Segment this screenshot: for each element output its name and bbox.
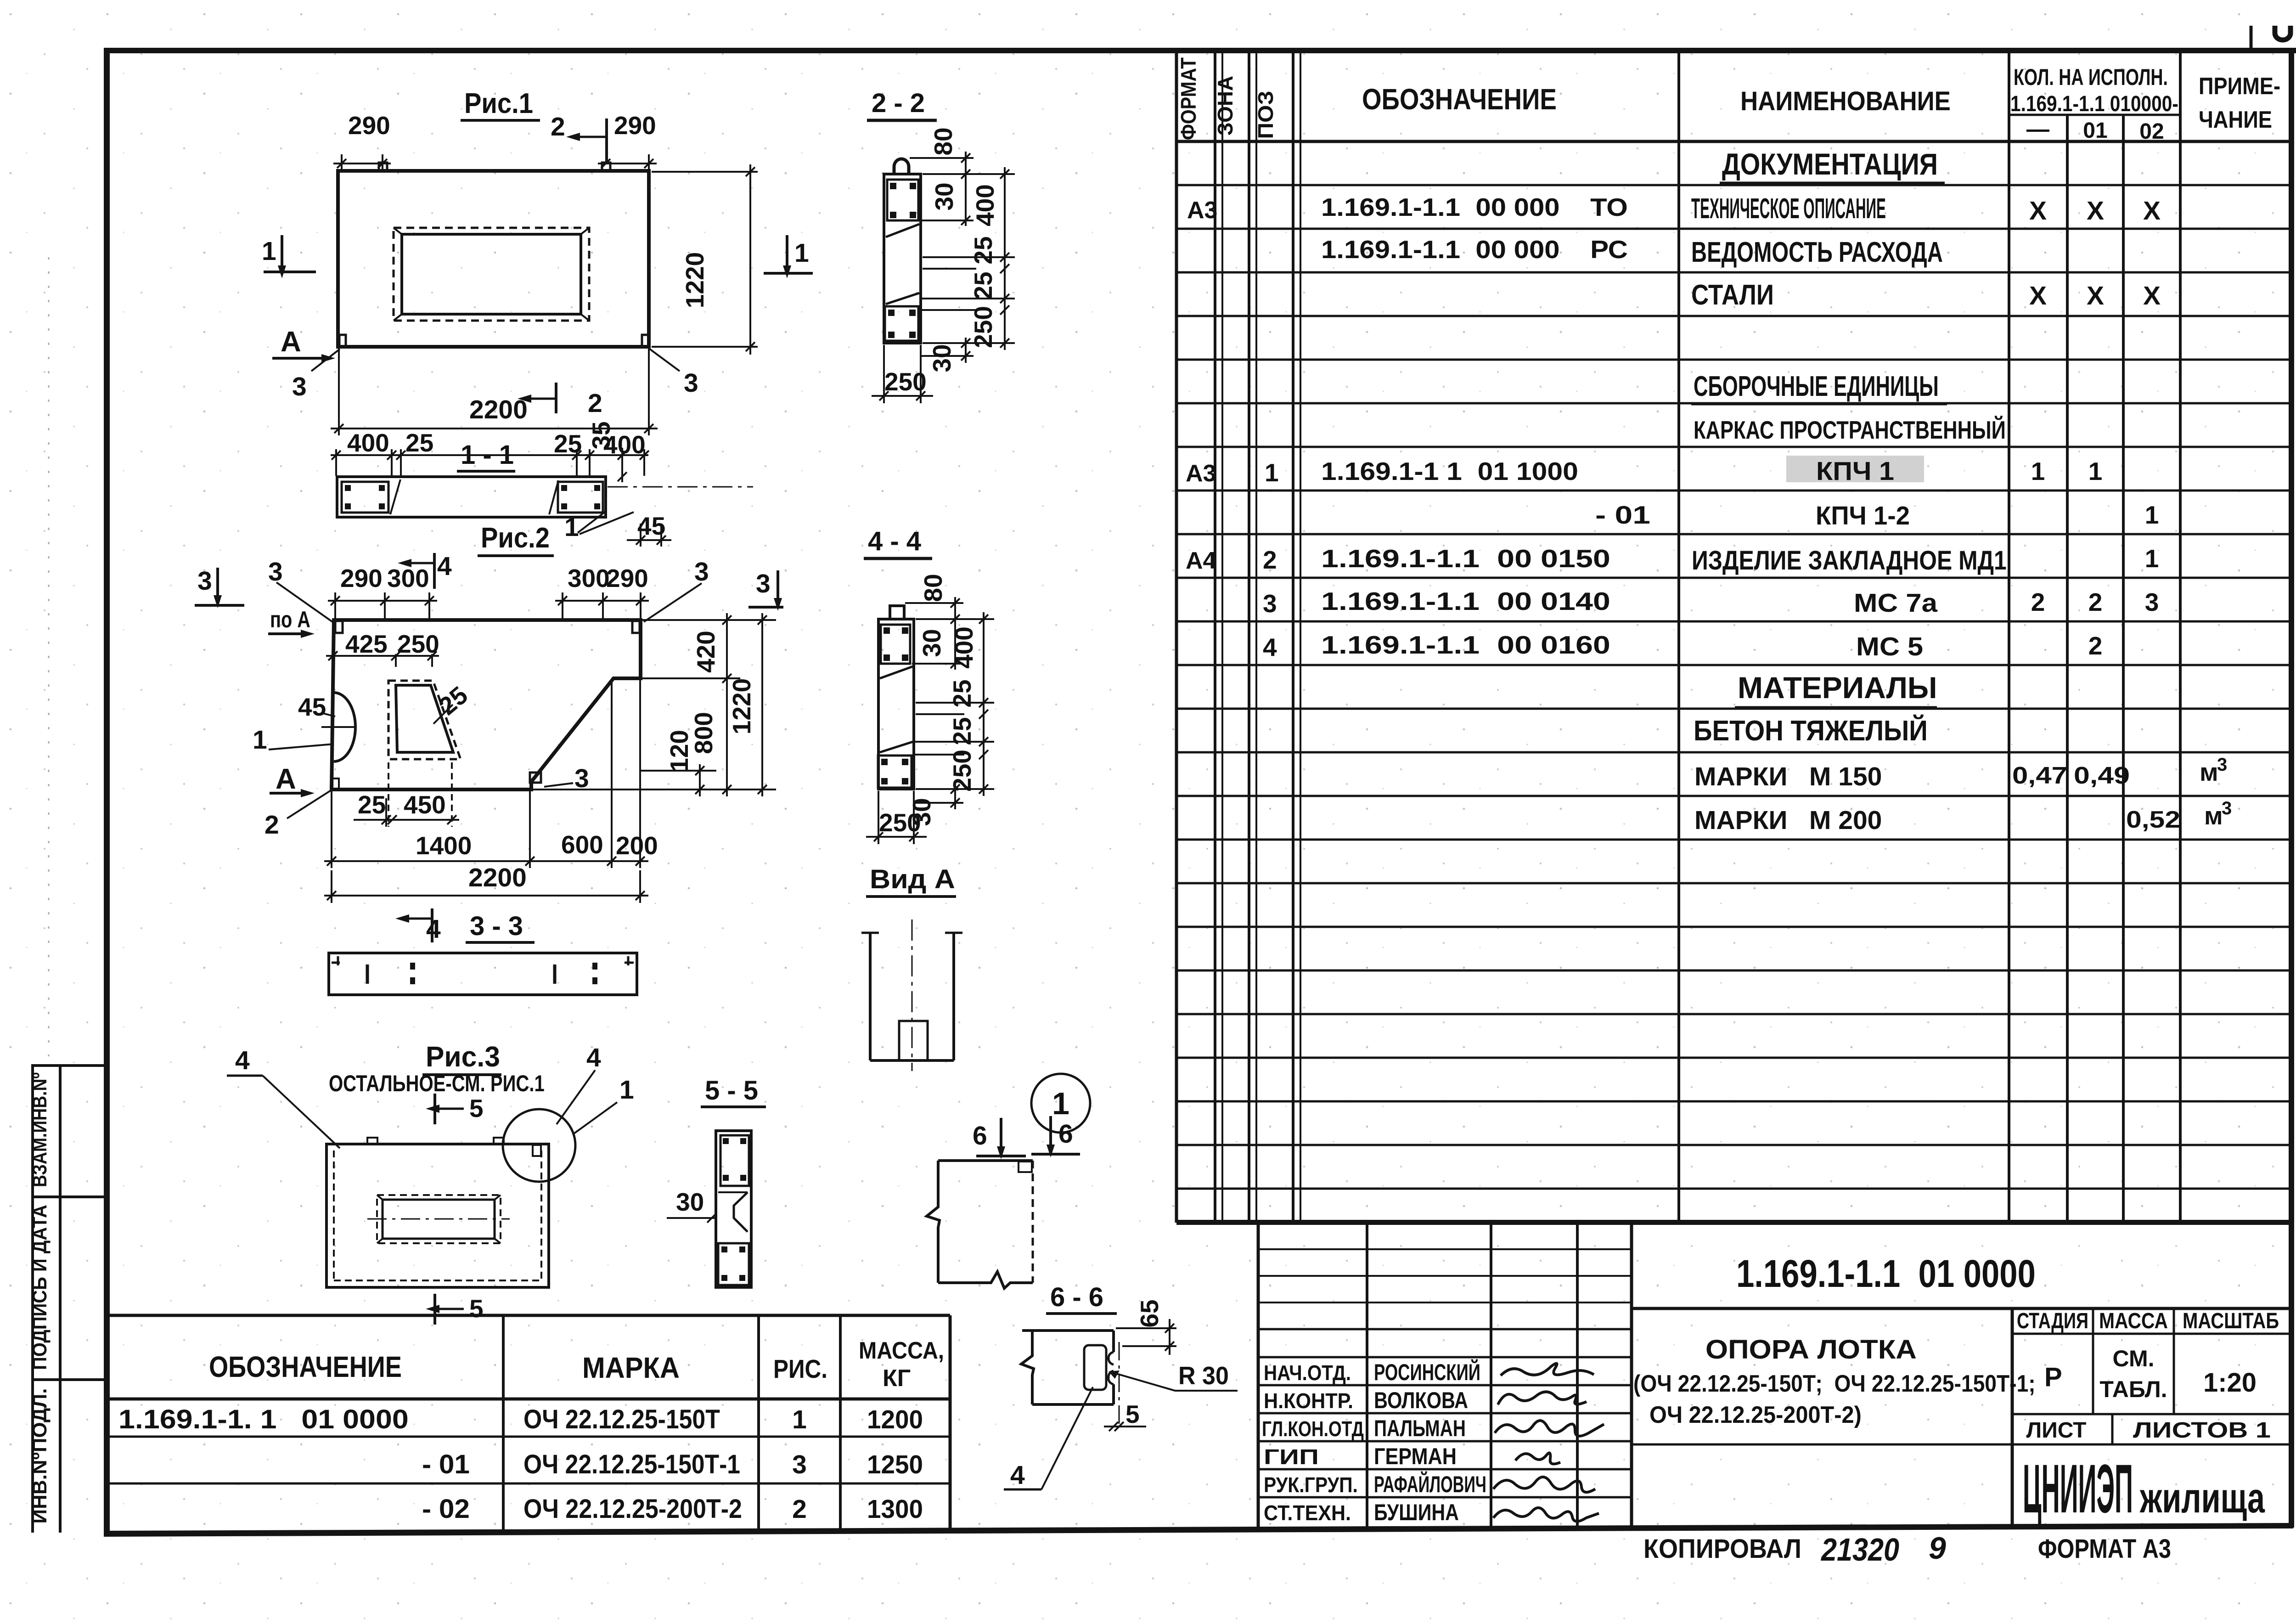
title block thin row line 1 [1258, 1248, 1632, 1250]
fig3 dashed inset left [333, 1150, 335, 1280]
svg-text:м: м [2200, 758, 2218, 786]
fig1 lifting loop stub right [602, 163, 610, 171]
svg-text:РУК.ГРУП.: РУК.ГРУП. [1264, 1474, 1358, 1497]
svg-text:800: 800 [689, 712, 718, 754]
spec table col line naimenovanie/qty [2008, 50, 2010, 1223]
fig2 slab outline polygon [332, 620, 641, 789]
svg-text:ОЧ 22.12.25-200Т-2): ОЧ 22.12.25-200Т-2) [1649, 1401, 1862, 1428]
svg-text:1300: 1300 [867, 1494, 923, 1523]
fig3 top stub right [494, 1138, 504, 1144]
svg-text:3 - 3: 3 - 3 [470, 911, 523, 941]
title block signature row lines [1258, 1357, 1632, 1497]
frame left border [104, 48, 110, 1535]
section 1-1 left rebar dots [345, 485, 385, 509]
svg-text:3: 3 [684, 368, 698, 398]
margin strip outer vertical line [31, 1064, 34, 1533]
svg-text:ФОРМАТ А3: ФОРМАТ А3 [2038, 1534, 2171, 1564]
section 6-6 R30 fillet bumps [1109, 1352, 1114, 1365]
margin strip inner vertical line [59, 1064, 62, 1533]
svg-text:НАИМЕНОВАНИЕ: НАИМЕНОВАНИЕ [1740, 86, 1951, 116]
section 4-4 bottom rebar dots [881, 759, 908, 784]
margin strip divider 2 [31, 1378, 107, 1381]
svg-text:1.169.1-1.1 010000-: 1.169.1-1.1 010000- [2010, 92, 2178, 116]
svg-text:ТЕХНИЧЕСКОЕ ОПИСАНИЕ: ТЕХНИЧЕСКОЕ ОПИСАНИЕ [1691, 193, 1886, 225]
title block col line stadiya/massa [2092, 1308, 2094, 1414]
svg-text:ВЗАМ.ИНВ.Nº: ВЗАМ.ИНВ.Nº [28, 1072, 51, 1187]
svg-text:600: 600 [561, 830, 603, 859]
section 5-5 bottom rebar box [718, 1243, 749, 1285]
svg-text:35: 35 [587, 421, 615, 449]
svg-text:4: 4 [1263, 633, 1277, 661]
svg-text:2: 2 [551, 112, 565, 141]
section 2-2 bottom rebar box [885, 306, 918, 341]
svg-text:6: 6 [1058, 1119, 1073, 1149]
frame top border [104, 48, 2296, 53]
svg-text:РАФАЙЛОВИЧ: РАФАЙЛОВИЧ [1374, 1471, 1486, 1497]
svg-text:R 30: R 30 [1178, 1362, 1229, 1390]
svg-text:ОЧ 22.12.25-150Т: ОЧ 22.12.25-150Т [523, 1404, 720, 1434]
svg-text:25: 25 [948, 679, 976, 707]
section 2-2 dim 80 [961, 152, 970, 226]
svg-text:ОЧ 22.12.25-200Т-2: ОЧ 22.12.25-200Т-2 [523, 1494, 742, 1523]
svg-text:4: 4 [235, 1046, 250, 1075]
svg-text:1.169.1-1. 1 01 0000: 1.169.1-1. 1 01 0000 [118, 1404, 409, 1434]
spec table col line zona/poz [1248, 50, 1250, 1223]
spec table subcol line qty1/qty2 [2066, 115, 2069, 1223]
svg-text:300: 300 [387, 564, 429, 592]
section 4-4 slash above bottom cage [880, 742, 913, 752]
svg-text:ОЧ 22.12.25-150Т-1: ОЧ 22.12.25-150Т-1 [523, 1449, 740, 1479]
section 4-4 dim 80 [951, 597, 960, 670]
svg-text:1.169.1-1.1 00 000 ТО: 1.169.1-1.1 00 000 ТО [1321, 193, 1628, 221]
svg-text:25: 25 [554, 429, 582, 458]
fig2 corner plate top-left [335, 621, 343, 633]
svg-text:ПРИМЕ-: ПРИМЕ- [2199, 73, 2280, 100]
bottom-left table header bottom line [105, 1398, 950, 1401]
svg-text:1.169.1-1 1 01 1000: 1.169.1-1 1 01 1000 [1321, 458, 1578, 486]
svg-text:21320: 21320 [1820, 1532, 1899, 1568]
svg-text:2200: 2200 [469, 395, 528, 424]
svg-text:МС 7а: МС 7а [1854, 588, 1938, 617]
svg-text:1: 1 [619, 1075, 634, 1105]
section 3-3 inner tick 1 [366, 964, 369, 984]
svg-text:КАРКАС ПРОСТРАНСТВЕННЫЙ: КАРКАС ПРОСТРАНСТВЕННЫЙ [1694, 415, 2006, 444]
title block col line labels/names [1366, 1223, 1368, 1528]
fig2 corner plate top-right [632, 621, 640, 633]
svg-text:Х: Х [2029, 196, 2047, 226]
svg-text:ВОЛКОВА: ВОЛКОВА [1374, 1387, 1468, 1413]
fig3 opening solid outline [383, 1200, 495, 1239]
svg-text:250: 250 [397, 630, 439, 658]
svg-text:Х: Х [2087, 281, 2104, 310]
svg-text:- 01: - 01 [422, 1449, 470, 1479]
svg-text:3: 3 [2145, 588, 2159, 616]
svg-text:ФОРМАТ: ФОРМАТ [1177, 57, 1201, 140]
signature squiggle palman [1495, 1421, 1604, 1436]
fig1 dim 290 right [598, 154, 657, 170]
section 5-5 outline [716, 1131, 751, 1287]
title block big designation cell bottom line [1632, 1307, 2289, 1310]
spec table col line qty/primechanie [2179, 50, 2182, 1223]
svg-text:жилища: жилища [2139, 1475, 2265, 1522]
svg-text:290: 290 [340, 564, 383, 592]
svg-text:1.169.1-1.1 00 0150: 1.169.1-1.1 00 0150 [1321, 545, 1610, 573]
svg-text:3: 3 [2217, 755, 2227, 775]
vid A top flange ticks [861, 932, 879, 934]
svg-text:1: 1 [1265, 458, 1279, 487]
svg-text:2: 2 [2088, 632, 2103, 660]
svg-text:1220: 1220 [681, 252, 709, 308]
section 4-4 top rebar box [881, 625, 910, 664]
svg-text:2: 2 [1263, 546, 1277, 574]
section 4-4 dim 30 bottom [951, 783, 960, 809]
section 3-3 inner dots 2 [592, 963, 597, 970]
svg-text:А3: А3 [1186, 460, 1216, 487]
svg-text:1.169.1-1.1 00 0140: 1.169.1-1.1 00 0140 [1321, 587, 1610, 615]
svg-text:КГ: КГ [883, 1365, 911, 1392]
svg-text:1250: 1250 [867, 1449, 923, 1479]
svg-text:80: 80 [929, 127, 957, 155]
svg-text:5: 5 [469, 1294, 484, 1323]
svg-text:ГЕРМАН: ГЕРМАН [1374, 1444, 1457, 1469]
section 6-6 embedded plate [1084, 1345, 1106, 1390]
svg-text:МАССА: МАССА [2099, 1309, 2168, 1333]
svg-text:ТАБЛ.: ТАБЛ. [2099, 1376, 2167, 1402]
vid A bottom edge [870, 1059, 954, 1062]
title block col line list/listov [2111, 1414, 2114, 1444]
svg-text:КПЧ 1: КПЧ 1 [1816, 457, 1894, 486]
section 4-4 dim ladder 400 25 25 250 [979, 612, 988, 796]
svg-text:1:20: 1:20 [2203, 1368, 2257, 1398]
section 2-2 dim 30 top [961, 216, 970, 225]
svg-text:СБОРОЧНЫЕ ЕДИНИЦЫ: СБОРОЧНЫЕ ЕДИНИЦЫ [1694, 370, 1939, 402]
fig2 corner plate bottom-left [332, 778, 339, 789]
svg-text:Х: Х [2143, 281, 2161, 310]
section 4-4 dim 250 bottom [866, 791, 927, 844]
svg-text:1: 1 [1052, 1086, 1069, 1121]
section 5-5 top rebar dots [723, 1138, 746, 1181]
fig2 trapezoid opening solid [396, 685, 453, 752]
fig2 dim 1220 vertical [758, 613, 767, 796]
svg-text:А4: А4 [1186, 547, 1216, 574]
top-right page number mark [2250, 26, 2253, 51]
frame bottom border (slightly sloped as in scan) [104, 1523, 2293, 1537]
svg-text:А: А [276, 763, 296, 795]
svg-text:1: 1 [794, 238, 809, 268]
margin strip divider 1 [31, 1195, 107, 1198]
svg-text:1.169.1-1.1 00 0160: 1.169.1-1.1 00 0160 [1321, 631, 1610, 659]
svg-text:4: 4 [1010, 1460, 1025, 1490]
svg-text:МАТЕРИАЛЫ: МАТЕРИАЛЫ [1738, 671, 1937, 705]
svg-text:2: 2 [264, 810, 279, 840]
section 4-4 slash below top cage [880, 666, 913, 678]
svg-text:400: 400 [971, 184, 999, 226]
section 2-2 dim 30 bottom [961, 338, 970, 363]
section 2-2 extension lines [910, 158, 1015, 356]
svg-text:ИЗДЕЛИЕ ЗАКЛАДНОЕ МД1: ИЗДЕЛИЕ ЗАКЛАДНОЕ МД1 [1692, 546, 2007, 575]
svg-text:2200: 2200 [468, 863, 527, 892]
bottom-left table right edge [949, 1315, 952, 1529]
svg-text:290: 290 [614, 111, 656, 140]
section 2-2 top rebar box [887, 180, 918, 220]
faint scanner artifact dotted line [48, 257, 50, 1056]
section 4-4 bottom rebar box [878, 756, 912, 788]
svg-text:МАРКИ М 150: МАРКИ М 150 [1694, 762, 1882, 791]
margin strip top line [31, 1064, 107, 1067]
section 4-4 lifting loop stub [890, 606, 904, 619]
svg-text:200: 200 [616, 831, 658, 860]
detail 6 upper square left edge with break [927, 1161, 940, 1283]
section 6-6 dim 65 [1116, 1319, 1176, 1355]
svg-text:400: 400 [347, 429, 389, 457]
section 1-1 left rebar box [342, 482, 388, 513]
title block thin row line 2 [1258, 1275, 1632, 1277]
spec table col line oboznachenie/naimenovanie [1677, 50, 1680, 1223]
svg-text:3: 3 [574, 764, 589, 793]
section 1-1 axis dash-dot line [608, 486, 753, 488]
svg-text:1220: 1220 [727, 678, 756, 734]
svg-text:МАСШТАБ: МАСШТАБ [2183, 1309, 2279, 1333]
svg-text:3: 3 [694, 557, 709, 586]
svg-text:1.169.1-1.1 01 0000: 1.169.1-1.1 01 0000 [1736, 1252, 2036, 1295]
fig1 opening corner bevels [394, 228, 589, 321]
svg-text:4: 4 [586, 1043, 601, 1072]
svg-text:ОБОЗНАЧЕНИЕ: ОБОЗНАЧЕНИЕ [1362, 83, 1557, 116]
svg-text:1: 1 [2031, 457, 2045, 485]
section 2-2 slash above bottom cage [886, 293, 919, 304]
bottom-left table col line ris/massa [839, 1315, 842, 1529]
svg-text:- 02: - 02 [422, 1494, 470, 1524]
section 2-2 top rebar dots [890, 183, 916, 218]
signature squiggle rosinsky [1501, 1364, 1594, 1376]
svg-text:30: 30 [928, 344, 956, 372]
svg-text:1: 1 [792, 1405, 807, 1434]
svg-text:А3: А3 [1187, 197, 1217, 224]
svg-text:БУШИНА: БУШИНА [1374, 1500, 1459, 1525]
svg-text:3: 3 [268, 557, 283, 586]
spec table col line poz/oboznachenie [1292, 50, 1294, 1223]
svg-text:Рис.2: Рис.2 [481, 521, 550, 553]
title block name cell bottom line [1632, 1444, 2289, 1446]
svg-text:м: м [2204, 801, 2223, 830]
svg-text:2: 2 [2088, 588, 2103, 616]
fig3 opening dashed outline [377, 1195, 501, 1243]
bottom-left table col line marka/ris [757, 1315, 760, 1529]
section 1-1 dim 45 [627, 524, 671, 547]
section 1-1 right rebar dots [561, 485, 600, 509]
title block stage header bottom line [2012, 1333, 2289, 1335]
fig1 lifting loop stub left [379, 163, 387, 171]
section 3-3 end bracket left [332, 956, 340, 965]
fig2 dim 800 vertical [722, 678, 732, 796]
svg-text:3: 3 [2222, 798, 2232, 818]
svg-text:РОСИНСКИЙ: РОСИНСКИЙ [1374, 1359, 1480, 1385]
section 1-1 dim line 400 25 25 400 [331, 449, 649, 476]
svg-text:1: 1 [262, 237, 276, 266]
svg-text:2: 2 [2031, 588, 2045, 616]
svg-text:45: 45 [637, 512, 665, 540]
svg-text:ПОЗ: ПОЗ [1255, 91, 1278, 139]
vid A right wall [952, 933, 955, 1060]
svg-text:1200: 1200 [867, 1404, 923, 1434]
detail 6 upper corner notch [1019, 1162, 1032, 1172]
svg-text:25: 25 [969, 271, 997, 299]
spec table subcol line qty2/qty3 [2122, 115, 2125, 1223]
signature squiggle volkova [1498, 1392, 1587, 1404]
section 6-6 dim 5 [1104, 1422, 1146, 1431]
fig2 trapezoid opening dashed [388, 681, 461, 759]
section 1-1 bar outline [337, 477, 606, 517]
section 1-1 left slash mark [390, 479, 400, 514]
svg-text:ПАЛЬМАН: ПАЛЬМАН [1374, 1415, 1466, 1441]
svg-text:30: 30 [676, 1188, 704, 1216]
svg-text:5 - 5: 5 - 5 [705, 1076, 758, 1105]
svg-text:А: А [281, 326, 301, 358]
spec table left edge [1175, 50, 1178, 1223]
section 6-6 block bottom edge [1032, 1403, 1114, 1406]
fig3 slab outline [326, 1144, 549, 1287]
svg-text:400: 400 [950, 626, 978, 669]
section 1-1 right slash mark [549, 480, 558, 514]
svg-text:2: 2 [792, 1494, 807, 1524]
svg-text:ЗОНА: ЗОНА [1213, 76, 1237, 135]
signature squiggle german [1515, 1453, 1560, 1464]
detail 6 upper square bottom edge with break [938, 1272, 1033, 1288]
fig3 top stub left [367, 1138, 377, 1144]
svg-text:2 - 2: 2 - 2 [872, 88, 925, 118]
section 1-1 dim 35 [618, 448, 627, 482]
fig1 opening dashed outline [394, 228, 589, 321]
fig1 opening solid inner outline [402, 234, 581, 314]
svg-text:290: 290 [606, 564, 648, 592]
section 2-2 slash below top cage [886, 224, 919, 237]
svg-text:Рис.3: Рис.3 [426, 1040, 500, 1072]
svg-text:(ОЧ 22.12.25-150Т; ОЧ 22.12.2: (ОЧ 22.12.25-150Т; ОЧ 22.12.25-150Т-1; [1633, 1370, 2036, 1397]
svg-text:КОПИРОВАЛ: КОПИРОВАЛ [1643, 1534, 1801, 1563]
fig2 corner plate bottom-mid [530, 773, 541, 783]
vid A left wall [869, 933, 872, 1060]
section 3-3 inner dots 1 [410, 963, 415, 970]
svg-text:БЕТОН ТЯЖЕЛЫЙ: БЕТОН ТЯЖЕЛЫЙ [1694, 715, 1928, 747]
svg-text:МАРКИ М 200: МАРКИ М 200 [1694, 806, 1882, 835]
section 4-4 top rebar dots [884, 627, 908, 661]
fig2 top dims 290 300 [328, 592, 437, 619]
svg-text:СТ.ТЕХН.: СТ.ТЕХН. [1264, 1502, 1351, 1525]
svg-text:НАЧ.ОТД.: НАЧ.ОТД. [1264, 1362, 1351, 1385]
svg-text:РИС.: РИС. [773, 1355, 827, 1384]
section 4-4 dim 30 top [951, 659, 960, 668]
svg-text:ОСТАЛЬНОЕ-СМ. РИС.1: ОСТАЛЬНОЕ-СМ. РИС.1 [329, 1071, 545, 1096]
svg-text:Н.КОНТР.: Н.КОНТР. [1264, 1390, 1353, 1413]
svg-text:45: 45 [298, 693, 326, 721]
svg-text:25: 25 [405, 429, 433, 457]
fig3 section mark 5 top [433, 1094, 436, 1124]
bottom-left table col line oboznachenie/marka [502, 1315, 505, 1529]
fig3 dashed inset right [540, 1150, 542, 1280]
svg-text:0,47: 0,47 [2012, 762, 2067, 789]
vid A bottom insert rect [899, 1021, 928, 1060]
svg-text:3: 3 [292, 372, 307, 401]
section 6-6 block top edge [1022, 1329, 1114, 1332]
spec table header bottom line [1176, 140, 2291, 143]
bottom-left table top line [105, 1314, 950, 1317]
svg-text:МАССА,: МАССА, [859, 1337, 944, 1364]
fig1 corner embed plate left [339, 335, 346, 346]
svg-text:1: 1 [2145, 544, 2159, 573]
section 2-2 dim 250 bottom [872, 345, 933, 403]
fig2 dim 120 vertical [695, 764, 704, 796]
svg-text:Р: Р [2044, 1362, 2062, 1392]
signature squiggle bushina [1493, 1508, 1599, 1522]
svg-text:1: 1 [2145, 501, 2159, 529]
bottom-left table row line 2 [105, 1483, 950, 1485]
svg-text:420: 420 [692, 631, 720, 673]
svg-text:КПЧ 1-2: КПЧ 1-2 [1816, 501, 1910, 530]
svg-text:80: 80 [919, 574, 947, 602]
section 6-6 block left edge with break [1021, 1331, 1034, 1404]
svg-text:3: 3 [792, 1450, 807, 1479]
svg-text:30: 30 [917, 629, 946, 657]
title block thin row line 3 [1258, 1302, 1632, 1303]
svg-text:СМ.: СМ. [2113, 1346, 2155, 1371]
svg-text:ПОДПИСЬ И ДАТА: ПОДПИСЬ И ДАТА [28, 1205, 51, 1370]
fig2 lifting hole bulge on left edge [334, 693, 355, 761]
svg-text:ГЛ.КОН.ОТД: ГЛ.КОН.ОТД [1262, 1417, 1364, 1441]
svg-text:1: 1 [253, 725, 267, 755]
svg-text:30: 30 [930, 182, 958, 210]
section 3-3 inner tick 2 [553, 964, 557, 984]
svg-text:ЛИСТОВ 1: ЛИСТОВ 1 [2133, 1418, 2271, 1442]
svg-text:290: 290 [348, 111, 390, 140]
fig1 dim 1220 vertical [652, 164, 758, 355]
svg-text:2: 2 [588, 389, 602, 418]
section 5-5 bottom rebar dots [721, 1246, 745, 1281]
svg-text:ВЕДОМОСТЬ РАСХОДА: ВЕДОМОСТЬ РАСХОДА [1691, 236, 1943, 268]
svg-text:1400: 1400 [416, 831, 472, 860]
svg-text:6 - 6: 6 - 6 [1050, 1282, 1103, 1312]
svg-text:300: 300 [568, 564, 610, 592]
title block col line names/signatures [1490, 1223, 1492, 1528]
fig3 corner plate top-right [533, 1145, 541, 1156]
svg-text:3: 3 [197, 566, 212, 596]
svg-text:250: 250 [948, 750, 976, 792]
svg-text:02: 02 [2139, 119, 2164, 144]
svg-text:25: 25 [948, 717, 976, 745]
title block col line massa/masshtab [2173, 1308, 2175, 1414]
bottom-left table row line 1 [105, 1436, 950, 1438]
fig2 dims 25 450 below trapezoid [354, 762, 459, 827]
svg-text:Рис.1: Рис.1 [464, 87, 533, 119]
fig3 detail circle [503, 1109, 575, 1182]
svg-text:250: 250 [884, 367, 927, 396]
section 5-5 channel profile [734, 1192, 748, 1232]
svg-text:ЛИСТ: ЛИСТ [2026, 1418, 2087, 1443]
section 3-3 bar outline [329, 953, 637, 995]
svg-text:9: 9 [1929, 1531, 1946, 1566]
svg-text:Х: Х [2087, 196, 2104, 226]
svg-text:ЧАНИЕ: ЧАНИЕ [2199, 107, 2272, 133]
fig2 top dims 300 290 right [555, 592, 649, 619]
svg-text:1.169.1-1.1 00 000 РС: 1.169.1-1.1 00 000 РС [1321, 236, 1628, 264]
spec table col line format/zona [1214, 50, 1216, 1223]
svg-text:СТАЛИ: СТАЛИ [1691, 279, 1774, 311]
svg-text:425: 425 [345, 630, 388, 658]
svg-text:1: 1 [2088, 457, 2103, 485]
section 4-4 extension lines [905, 603, 994, 803]
svg-text:65: 65 [1135, 1299, 1164, 1327]
spec table bottom thick line [1176, 1220, 2292, 1225]
svg-text:450: 450 [404, 790, 446, 819]
